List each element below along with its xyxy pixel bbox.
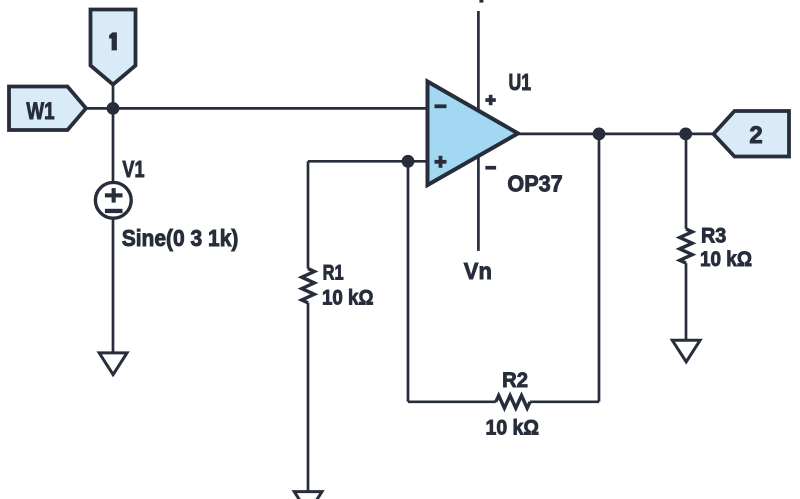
clipped Vp label remnant at top edge	[479, 0, 483, 3]
wire V1 to ground	[112, 218, 115, 353]
op-amp inverting input mark (inside, top)	[435, 104, 447, 108]
resistor R1	[302, 269, 315, 303]
wire to V1	[112, 108, 115, 182]
wire R3 top	[685, 134, 688, 229]
wire non-inverting input horizontal	[308, 160, 428, 163]
node junction at W1	[107, 102, 120, 115]
svg-text:2: 2	[749, 122, 762, 149]
svg-text:Vn: Vn	[464, 258, 492, 284]
positive supply rail Vp wire	[477, 11, 480, 112]
node junction feedback tap	[593, 127, 606, 140]
resistor R2	[496, 396, 530, 409]
supply plus mark (outside, top)	[485, 95, 495, 105]
negative supply stub wire	[477, 156, 480, 251]
flag W1 (source label)	[9, 87, 86, 131]
flag 2 (net label)	[714, 111, 790, 157]
supply minus mark (outside, bottom)	[485, 166, 496, 170]
wire feedback vertical right	[598, 134, 601, 402]
wire output	[518, 133, 714, 136]
svg-text:10 kΩ: 10 kΩ	[322, 286, 374, 310]
wire feedback bottom right	[530, 400, 599, 403]
svg-text:10 kΩ: 10 kΩ	[700, 247, 752, 271]
ground under R3	[672, 340, 700, 362]
wire R1 top	[307, 161, 310, 268]
voltage source V1	[95, 182, 131, 218]
op-amp non-inverting input mark (inside, bottom)	[435, 156, 447, 168]
wire R1 bottom	[307, 303, 310, 492]
svg-text:Sine(0 3 1k): Sine(0 3 1k)	[122, 225, 239, 251]
node junction R3 tap	[679, 127, 692, 140]
svg-text:W1: W1	[26, 98, 54, 125]
svg-text:V1: V1	[122, 156, 144, 182]
flag 1 (net label)	[91, 10, 136, 85]
svg-text:OP37: OP37	[507, 171, 562, 197]
wire main horizontal to inverting input	[86, 107, 428, 110]
svg-text:R1: R1	[323, 261, 344, 285]
op-amp U1 body	[428, 82, 519, 186]
node junction at non-inverting input	[402, 155, 415, 168]
svg-text:R2: R2	[502, 368, 528, 392]
ground under R1 (clipped at bottom)	[294, 492, 322, 499]
svg-text:R3: R3	[701, 224, 726, 248]
resistor R3	[680, 229, 693, 263]
wire feedback bottom left	[408, 400, 496, 403]
wire R3 to ground	[685, 263, 688, 340]
wire flag1 stem	[112, 85, 115, 109]
svg-text:10 kΩ: 10 kΩ	[486, 415, 540, 439]
ground under V1	[99, 353, 127, 375]
svg-text:U1: U1	[509, 69, 532, 95]
wire feedback vertical left	[407, 161, 410, 401]
